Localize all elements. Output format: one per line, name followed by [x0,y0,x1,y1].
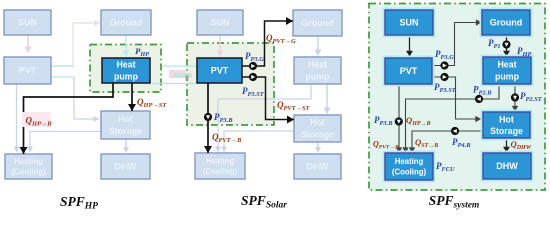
pump P2.ST (panel 3) [511,93,519,101]
node DHW (panel 1, faded) [101,154,150,179]
wire PVT to Hot Storage via pump P3.ST (panel 3) [432,77,481,119]
pump P2.B (panel 3) [475,95,483,103]
wire Q_ST-B hot storage to heating via pump P4.B (panel 3) [412,131,482,153]
faded wire heat pump to heating (panel 2) [218,84,311,152]
pump P3.ST (panel 2) [249,73,257,81]
node PVT (panel 1, faded) [4,57,51,84]
wire Q_HP-B heat pump to heating via pump P2.B (panel 3) [406,84,500,153]
node Hot Storage (panel 2, faded) [294,115,341,142]
faded wire PVT to storage (panel 1) [74,77,99,119]
pump P4.B (panel 3) [451,127,459,135]
node Hot Storage (panel 3) [481,110,533,141]
node SUN (panel 3) [383,8,436,38]
pump P3.G (panel 2) [249,62,257,70]
node DHW (panel 3) [481,151,534,182]
node Heat pump (panel 3) [481,55,534,87]
wire PVT to Ground via pump P3.G (panel 3) [432,23,482,66]
node Heating (Cooling) (panel 1, faded) [5,154,52,179]
green dash-dot boundary (panel 1, around heat pump) [90,45,161,93]
node Heat pump (panel 1, active) [102,58,150,83]
svg-text:Heating(Cooling): Heating(Cooling) [392,157,427,177]
node PVT (panel 3) [383,56,435,87]
faded wire heat pump to storage (panel 2) [326,84,328,114]
svg-text:DHW: DHW [115,162,137,172]
wire Q_HP-B heat pump to heating (panel 1) [24,83,114,154]
faded label smudge (panel 1-2 gap) [169,70,186,78]
faded wire SUN to PVT (panel 2) [219,35,221,57]
wire Q_HP-ST heat pump to hot storage (panel 1) [131,83,133,111]
faded wire Ground to heat pump (panel 2) [317,36,319,56]
wire Q_PVT-B PVT to heating via pump P3.B (panel 3) [398,84,400,153]
wire Ground to Heat pump via pump P1 (panel 3) [506,35,508,57]
faded wire PVT-P3ST stub (panel 1) [51,76,74,78]
pump P3.ST (panel 3) [440,73,448,81]
pump P3.B (panel 2) [204,113,212,121]
wire Q_PVT-ST PVT to hot storage (panel 2) [242,77,294,120]
green dash-dot boundary (panel 3, whole system) [369,4,545,191]
wire SUN to PVT (panel 3) [409,35,411,57]
node Heat pump (panel 2, faded) [294,57,341,84]
faded wire Ground to heat pump (panel 1) [125,35,127,57]
node PVT (panel 2, active) [197,58,242,83]
faded wire storage to heating (panel 1) [30,132,101,153]
faded wire SUN to PVT (panel 1) [27,35,29,53]
faded label smudge behind Q_HP-B (panel 1) [22,112,51,127]
svg-text:SUN: SUN [18,18,37,28]
faded wire storage to heating (panel 2) [224,131,294,152]
node Ground (panel 2, faded) [293,10,342,36]
faded wire PVT-P3G stub (panel 1) [51,65,74,67]
node Heating (Cooling) (panel 3) [383,151,436,183]
svg-text:SUN: SUN [210,18,229,28]
faded wire PVT to Ground elbow (panel 1) [51,23,100,66]
node Ground (panel 1, faded) [101,10,151,35]
pump P1 (panel 3) [502,40,510,48]
svg-text:DHW: DHW [307,162,329,172]
node Ground (panel 3) [480,8,533,38]
svg-text:PVT: PVT [211,66,229,76]
node Hot Storage (panel 1, faded) [101,111,150,139]
faded wire storage to DHW (panel 2) [317,142,319,153]
svg-text:Ground: Ground [490,18,523,28]
node SUN (panel 1, faded) [4,10,51,35]
wire Heat pump to Hot Storage via pump P2.ST (panel 3) [514,84,516,112]
node SUN (panel 2, faded) [197,10,243,35]
svg-text:Heating(Cooling): Heating(Cooling) [203,157,238,177]
pump P3.B (panel 3) [395,117,403,125]
svg-text:PVT: PVT [19,66,37,76]
node Heating (Cooling) (panel 2, faded) [195,153,245,179]
pump P3.G (panel 3) [440,61,448,69]
svg-text:SUN: SUN [399,18,418,28]
faded wire stub left of PVT (panel 2) [163,65,196,67]
node DHW (panel 2, faded) [294,154,341,179]
faded wire stub 2 left of PVT (panel 2) [152,83,196,85]
wire Q_PVT-B PVT to heating (panel 2) [207,83,209,153]
wire Q_PVT-G PVT to ground (panel 2) [242,21,293,66]
green dash-dot boundary (panel 2, around PVT) [187,43,274,125]
svg-text:DHW: DHW [496,161,518,171]
svg-text:Ground: Ground [301,18,334,28]
wire Q_DHW hot storage to DHW (panel 3) [506,138,508,153]
svg-text:PVT: PVT [400,66,418,76]
svg-text:Heating(Cooling): Heating(Cooling) [11,157,46,177]
faded wire PVT to heating (panel 1) [16,84,18,152]
faded wire storage to DHW (panel 1) [125,139,127,153]
svg-text:Ground: Ground [110,18,143,28]
